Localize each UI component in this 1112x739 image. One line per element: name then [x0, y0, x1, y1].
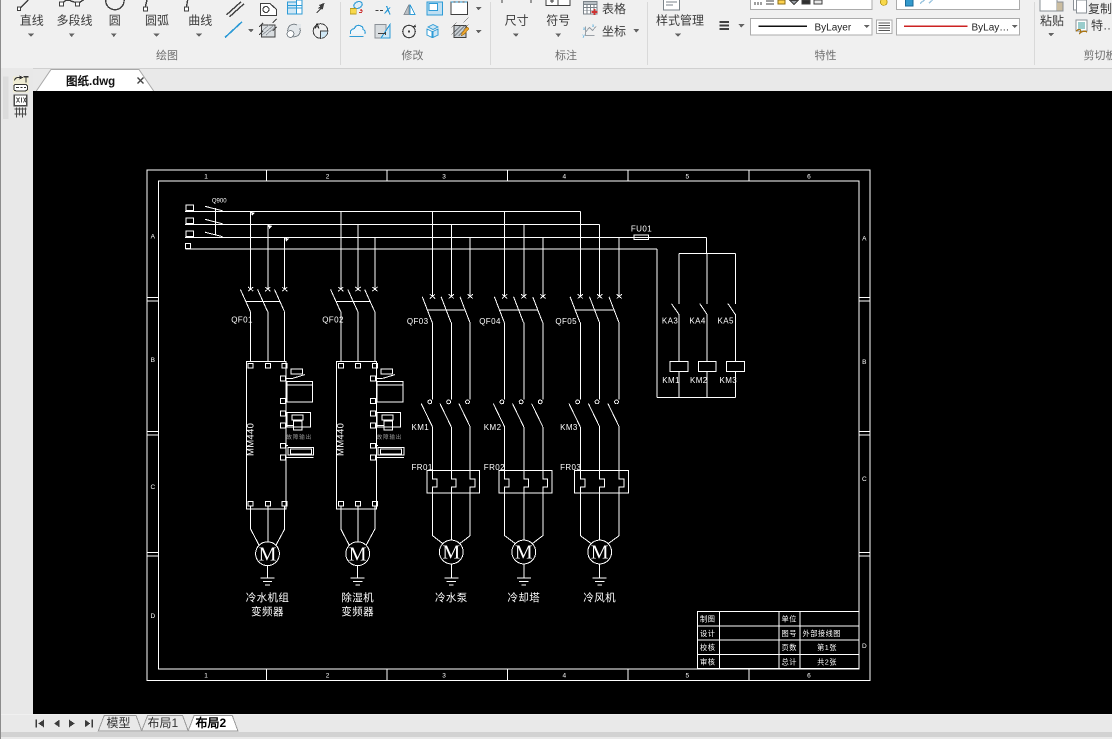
svg-text:M: M [349, 543, 367, 565]
svg-text:1: 1 [204, 673, 208, 680]
svg-text:共2张: 共2张 [817, 657, 837, 666]
svg-text:剪切板: 剪切板 [1084, 48, 1112, 62]
svg-text:外部接线图: 外部接线图 [803, 629, 841, 638]
svg-text:设计: 设计 [700, 629, 715, 638]
svg-text:变频器: 变频器 [251, 605, 284, 618]
svg-text:校核: 校核 [700, 643, 715, 652]
motor M4 [512, 540, 536, 564]
ground below motor M2 [351, 566, 365, 586]
svg-text:5: 5 [685, 173, 689, 180]
contactor coil KM2 [698, 361, 716, 371]
svg-text:冷却塔: 冷却塔 [507, 591, 540, 604]
svg-text:尺寸: 尺寸 [505, 14, 529, 28]
svg-text:冷水机组: 冷水机组 [246, 591, 290, 604]
drawing frame [147, 170, 870, 681]
svg-text:C: C [862, 476, 867, 483]
svg-text:B: B [862, 359, 866, 366]
svg-text:布局1: 布局1 [148, 716, 179, 730]
wire bus L2 [185, 224, 600, 226]
bottom tab row [0, 715, 1112, 732]
circuit breaker QF02 [331, 212, 378, 312]
wire coil KM3 to rail [734, 372, 736, 398]
motor M2 [346, 542, 370, 566]
svg-text:圆: 圆 [109, 14, 121, 28]
svg-text:故障输出: 故障输出 [377, 433, 403, 441]
svg-text:x: x [592, 23, 595, 28]
motor M1 [256, 542, 280, 566]
wire control top rail [679, 252, 735, 254]
wires breaker to contactor KM3 [580, 323, 619, 400]
svg-text:审核: 审核 [700, 657, 715, 666]
wires FR01 to motor [433, 493, 471, 544]
relay contact KA3 [672, 253, 680, 361]
svg-text:复制: 复制 [1088, 2, 1112, 16]
svg-text:A: A [151, 234, 156, 241]
svg-text:表格: 表格 [602, 1, 626, 16]
wires FR02 to motor [505, 493, 543, 544]
svg-text:冷风机: 冷风机 [583, 591, 616, 604]
thermal overload relay FR03 [575, 470, 629, 493]
svg-text:曲线: 曲线 [188, 14, 212, 28]
svg-text:A: A [315, 24, 320, 31]
svg-text:6: 6 [807, 673, 811, 680]
contactor KM3 main contacts [569, 400, 619, 470]
svg-text:样式管理: 样式管理 [656, 13, 704, 28]
svg-text:第1张: 第1张 [817, 643, 837, 652]
svg-text:绘图: 绘图 [156, 48, 178, 62]
fuse FU01 [634, 235, 648, 239]
VFD MM440 unit 1 box [246, 362, 313, 509]
motor M3 [439, 540, 463, 564]
svg-text:修改: 修改 [402, 48, 424, 62]
svg-text:KM3: KM3 [560, 423, 578, 432]
svg-text:M: M [259, 543, 277, 565]
svg-text:特性: 特性 [815, 48, 837, 62]
svg-text:FR01: FR01 [412, 463, 433, 472]
svg-text:除湿机: 除湿机 [341, 591, 374, 604]
svg-text:MM440: MM440 [336, 423, 347, 456]
svg-text:QF01: QF01 [231, 316, 253, 325]
svg-text:故障输出: 故障输出 [286, 433, 312, 441]
svg-text:布局2: 布局2 [196, 715, 227, 730]
circuit breaker QF01 [240, 212, 287, 312]
svg-text:D: D [862, 643, 867, 650]
svg-text:特…: 特… [1091, 18, 1112, 33]
contactor coil KM1 [670, 361, 688, 371]
contactor coil KM3 [727, 361, 745, 371]
svg-text:KM2: KM2 [484, 423, 502, 432]
svg-text:3: 3 [442, 173, 446, 180]
svg-text:KM3: KM3 [720, 376, 738, 385]
svg-text:单位: 单位 [782, 615, 797, 624]
relay contact KA5 [728, 253, 736, 361]
svg-text:4: 4 [562, 173, 566, 180]
left strip icons [3, 77, 8, 119]
ground below motor M3 [444, 564, 458, 585]
contactor KM2 main contacts [493, 400, 543, 470]
svg-text:总计: 总计 [782, 657, 797, 666]
wire bus L1 [185, 211, 580, 213]
svg-text:模型: 模型 [107, 716, 131, 730]
wires FR03 to motor [580, 493, 619, 544]
wire neutral drop [656, 249, 658, 398]
document tab [0, 68, 1112, 91]
title block [698, 612, 860, 669]
VFD MM440 unit 2 box [337, 362, 404, 509]
junction node taps for QF01 [251, 212, 255, 216]
motor M5 [588, 540, 612, 564]
wire bus L4 (neutral) [186, 248, 657, 250]
svg-text:KM1: KM1 [412, 423, 430, 432]
tab bar [0, 69, 1112, 91]
svg-text:M: M [591, 542, 609, 564]
wires QF02 to VFD2 [341, 311, 375, 361]
wires QF01 to VFD1 [251, 311, 285, 361]
svg-text:FR03: FR03 [560, 463, 581, 472]
svg-text:B: B [151, 357, 155, 364]
wire bus L3 [185, 236, 707, 238]
ground below motor M4 [517, 564, 531, 585]
bottom nav arrows [36, 720, 93, 728]
svg-text:粘贴: 粘贴 [1040, 13, 1064, 28]
ground below motor M1 [261, 566, 275, 586]
svg-text:D: D [150, 613, 155, 620]
svg-text:A: A [862, 236, 867, 243]
svg-text:6: 6 [807, 173, 811, 180]
svg-text:直线: 直线 [20, 14, 44, 28]
wires VFD2 to motor [341, 506, 375, 545]
thermal overload relay FR02 [499, 470, 552, 493]
ribbon panel separators [340, 2, 341, 65]
svg-text:Q900: Q900 [212, 199, 227, 205]
svg-text:KA4: KA4 [689, 316, 705, 325]
svg-text:3: 3 [442, 673, 446, 680]
svg-text:圆弧: 圆弧 [145, 14, 169, 28]
circuit breaker QF04 [494, 212, 545, 323]
wire control bottom rail [657, 397, 736, 399]
circuit breaker QF03 [422, 212, 473, 323]
wire drops bus to QF01 [251, 212, 285, 238]
svg-text:4: 4 [562, 673, 566, 680]
circuit breaker QF05 [570, 212, 622, 323]
wire coil KM2 to rail [706, 372, 708, 398]
svg-text:符号: 符号 [546, 13, 570, 28]
svg-text:2: 2 [326, 673, 330, 680]
svg-text:QF05: QF05 [555, 317, 577, 326]
svg-text:ByLayer: ByLayer [815, 22, 852, 33]
svg-text:5: 5 [685, 673, 689, 680]
ground below motor M5 [593, 564, 607, 585]
svg-text:1: 1 [204, 173, 208, 180]
left strip [0, 68, 33, 714]
svg-text:坐标: 坐标 [602, 25, 626, 39]
svg-text:2: 2 [326, 173, 330, 180]
svg-text:ByLay…: ByLay… [972, 22, 1010, 33]
relay contact KA4 [700, 253, 708, 361]
svg-text:QF04: QF04 [479, 317, 501, 326]
wires breaker to contactor KM1 [433, 323, 471, 400]
svg-text:页数: 页数 [782, 643, 797, 652]
svg-text:KA3: KA3 [662, 316, 678, 325]
wires VFD1 to motor [251, 506, 285, 545]
svg-text:M: M [442, 542, 460, 564]
wire fuse feed down [706, 237, 708, 253]
svg-text:标注: 标注 [555, 48, 577, 62]
svg-text:制图: 制图 [700, 615, 715, 624]
svg-text:冷水泵: 冷水泵 [435, 591, 468, 604]
svg-text:M: M [515, 542, 533, 564]
window left edge [0, 0, 1, 739]
svg-text:FU01: FU01 [631, 224, 652, 233]
svg-text:变频器: 变频器 [341, 605, 374, 618]
svg-text:QF03: QF03 [407, 317, 429, 326]
wires breaker to contactor KM2 [505, 323, 543, 400]
svg-text:C: C [150, 484, 155, 491]
svg-text:FR02: FR02 [484, 463, 505, 472]
svg-text:图号: 图号 [782, 629, 797, 638]
disconnect switch Q900 [186, 205, 223, 249]
wire coil KM1 to rail [678, 372, 680, 398]
svg-text:KM2: KM2 [690, 376, 708, 385]
svg-text:KA5: KA5 [718, 316, 734, 325]
svg-text:多段线: 多段线 [56, 13, 92, 28]
thermal overload relay FR01 [427, 470, 480, 493]
svg-text:KM1: KM1 [662, 376, 680, 385]
bottom layout tabs [98, 715, 238, 731]
ribbon background [0, 0, 1112, 69]
contactor KM1 main contacts [421, 400, 470, 470]
svg-text:MM440: MM440 [246, 423, 257, 456]
